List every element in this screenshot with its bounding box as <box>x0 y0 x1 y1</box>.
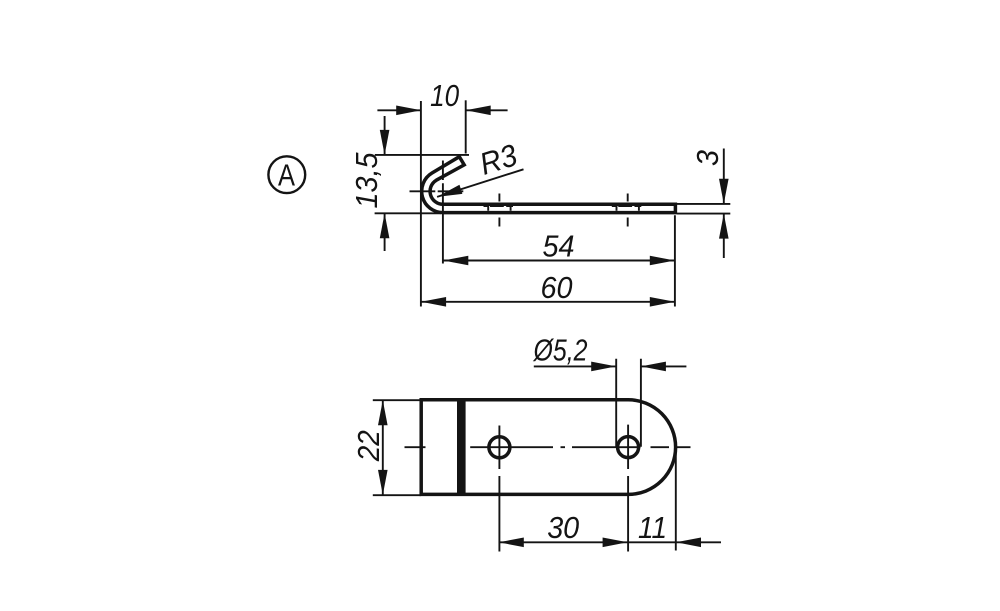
bottom view: axis centerline <box>405 446 691 448</box>
extension line hook tip (x=465.7) <box>465 100 467 153</box>
dimension 3 line <box>723 149 725 259</box>
dimension diameter 5,2 extension lines <box>616 359 641 447</box>
extension line strip bottom (y=213.3) <box>375 212 441 214</box>
side view: bend vertical centerline <box>442 161 444 264</box>
extension line plate right tangent <box>675 447 677 551</box>
view label A circle <box>268 156 305 193</box>
side view: hole 1 hidden edges <box>617 205 639 211</box>
svg-text:11: 11 <box>638 510 667 545</box>
dimension 22 line <box>382 400 384 495</box>
svg-text:R3: R3 <box>475 137 521 181</box>
side view: hole 1 centerline marks <box>612 194 642 227</box>
svg-text:10: 10 <box>430 78 459 113</box>
dimension 60 line <box>421 301 675 303</box>
bottom view: hole left vertical centerline <box>498 426 500 552</box>
svg-text:3: 3 <box>690 150 725 166</box>
side view: hook part outline <box>422 157 676 213</box>
extension line left (x=420.9) <box>420 101 422 307</box>
dimension 54 line <box>443 260 675 262</box>
side view: bend horizontal centerline <box>410 190 464 192</box>
svg-text:22: 22 <box>351 430 386 462</box>
dimension 30 and 11 line <box>499 541 721 543</box>
svg-text:30: 30 <box>547 510 579 545</box>
svg-text:13,5: 13,5 <box>349 152 384 209</box>
svg-text:60: 60 <box>541 270 573 305</box>
svg-text:54: 54 <box>543 229 575 264</box>
bottom view: plate outline <box>421 400 675 495</box>
svg-text:Ø5,2: Ø5,2 <box>533 333 588 368</box>
svg-text:A: A <box>278 158 295 193</box>
leader R3 <box>437 169 523 197</box>
bottom view: hole right <box>618 437 639 458</box>
bottom view: hole left <box>489 437 510 458</box>
extension lines thickness 3 <box>677 203 730 205</box>
dimension 10 line <box>377 109 507 111</box>
dimension 22 extension lines <box>373 400 421 495</box>
dimension diameter 5,2 line <box>534 365 687 367</box>
dimension 13,5 line <box>384 116 386 251</box>
side view: hole 2 centerline marks <box>484 194 514 227</box>
bottom view: hole right vertical centerline <box>627 425 629 552</box>
extension line right end (x=674.9) <box>674 215 676 306</box>
extension line top (y=154.9) <box>375 154 469 156</box>
bottom view: bend band <box>457 399 466 496</box>
side view: hole 2 hidden edges <box>488 205 510 211</box>
